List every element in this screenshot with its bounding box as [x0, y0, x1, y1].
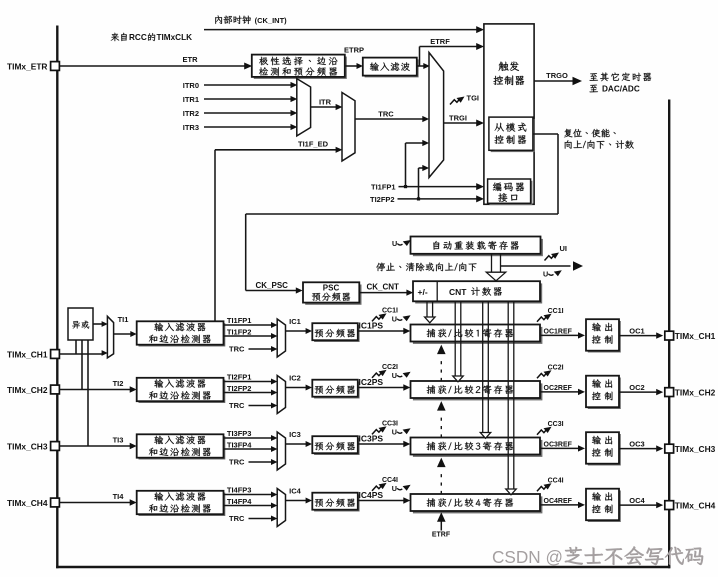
mux ITR selector [297, 79, 311, 136]
block prescaler 2 [312, 380, 359, 399]
event arrow CC2I capture [372, 364, 398, 378]
svg-text:TI2: TI2 [113, 379, 124, 388]
bus counter to capture/compare 1 [425, 302, 435, 323]
wire XOR output [93, 321, 108, 327]
svg-text:ITR1: ITR1 [183, 95, 199, 104]
event arrow CC3I right [537, 421, 564, 435]
svg-text:ETR: ETR [183, 55, 199, 64]
svg-text:TIMx_CH1: TIMx_CH1 [7, 350, 48, 360]
wire TI2FP1 [224, 372, 278, 384]
wire OC3 [619, 439, 663, 451]
block prescaler 1 [312, 323, 359, 342]
block output control 4 [586, 489, 621, 522]
wire TI4FP3 [224, 485, 278, 497]
wire TI1FP1 to trigger controller and encoder [371, 140, 484, 192]
svg-text:IC3PS: IC3PS [359, 433, 384, 443]
wire TI1 [114, 315, 137, 337]
svg-text:OC3REF: OC3REF [544, 442, 573, 449]
wire IC4 [286, 487, 313, 504]
block auto-reload register [411, 237, 543, 257]
output pad TIMx_CH4 [665, 501, 716, 511]
svg-text:TRGI: TRGI [449, 114, 467, 123]
svg-text:IC4PS: IC4PS [359, 490, 384, 500]
event arrow UI [545, 244, 568, 261]
event arrow CC1I right [537, 308, 564, 322]
wire ETRF to trigger controller [417, 37, 484, 69]
dashed wire capture trigger row 3 to row 2 [437, 401, 446, 437]
svg-text:TRGO: TRGO [546, 71, 568, 80]
wire TRC to TRGI mux [355, 110, 429, 123]
wire OC2 [619, 383, 663, 395]
svg-text:IC2: IC2 [289, 374, 301, 383]
wire OC1 [619, 326, 663, 338]
wire TI2 [60, 379, 137, 393]
block capture/compare 4 register [411, 494, 543, 513]
block output control 3 [586, 432, 621, 465]
event U at capture/compare 1 register [392, 314, 411, 323]
svg-text:TIMx_CH4: TIMx_CH4 [675, 501, 716, 511]
svg-text:U: U [392, 314, 397, 323]
svg-text:TI1FP2: TI1FP2 [227, 327, 252, 336]
wire TRC stub 4 [229, 514, 277, 523]
label reset enable up/down count [564, 129, 634, 149]
input pad TIMx_CH4 [7, 498, 59, 508]
block trigger controller [484, 24, 534, 204]
svg-text:TI4: TI4 [113, 492, 125, 501]
block input filter and edge detector 3 [137, 434, 226, 459]
outer block border bottom edge [56, 566, 670, 568]
svg-text:PSC: PSC [323, 283, 340, 292]
svg-text:TI2FP2: TI2FP2 [227, 384, 252, 393]
bus counter to capture/compare 3 [480, 302, 490, 439]
wire TI1FP1 [224, 316, 278, 328]
svg-text:TI2FP1: TI2FP1 [227, 372, 252, 381]
wire IC2PS [358, 377, 411, 391]
bus counter to capture/compare 2 [453, 302, 463, 382]
svg-text:TIMx_CH3: TIMx_CH3 [7, 441, 48, 451]
svg-text:TIMx_CH1: TIMx_CH1 [675, 331, 716, 341]
wire OC4REF [540, 498, 585, 508]
wire TRGI [444, 114, 484, 127]
event U at capture/compare 2 register [392, 371, 411, 380]
event arrow CC4I right [537, 478, 564, 492]
wire TI3 [60, 435, 137, 449]
svg-text:ITR3: ITR3 [183, 123, 199, 132]
mux IC3 selector [277, 432, 285, 470]
svg-text:TI3FP4: TI3FP4 [227, 440, 252, 449]
svg-text:OC4: OC4 [629, 496, 645, 505]
label 来自RCC的TIMxCLK [111, 33, 192, 42]
event arrow CC1I capture [372, 308, 398, 322]
svg-text:UI: UI [560, 244, 568, 253]
watermark CSDN [492, 546, 703, 567]
block encoder interface [488, 179, 533, 205]
wire CK_INT to trigger controller [204, 26, 484, 33]
label stop clear up/down [376, 263, 476, 272]
block PSC prescaler [303, 282, 362, 305]
svg-text:U: U [392, 484, 397, 493]
svg-text:ETRF: ETRF [432, 532, 451, 539]
block capture/compare 3 register [411, 438, 543, 457]
label internal clock (CK_INT) [215, 16, 287, 25]
block input filter and edge detector 2 [137, 378, 226, 403]
mux IC2 selector [277, 376, 285, 414]
wire ITR3 [183, 123, 298, 132]
wire ETR [60, 55, 252, 70]
block input filter and edge detector 1 [137, 321, 226, 346]
input pad TIMx_CH3 [7, 441, 59, 451]
svg-text:TIMx_CH2: TIMx_CH2 [7, 385, 48, 395]
block input filter [363, 58, 419, 78]
outer block border right edge [668, 100, 670, 569]
svg-text:U: U [392, 239, 397, 248]
svg-text:ETRF: ETRF [430, 37, 450, 46]
svg-text:IC1: IC1 [289, 317, 301, 326]
dashed wire capture trigger row 4 to row 3 [437, 458, 446, 494]
svg-text:U: U [543, 269, 548, 278]
wire IC4PS [358, 490, 411, 504]
block XOR [68, 308, 93, 340]
svg-text:CK_PSC: CK_PSC [256, 281, 289, 290]
outer block border left edge [56, 26, 58, 569]
block input filter and edge detector 4 [137, 491, 226, 516]
svg-text:TRC: TRC [229, 401, 245, 410]
svg-text:CSDN @: CSDN @ [492, 547, 563, 567]
wire TI1F_ED [215, 139, 342, 321]
block output control 1 [586, 319, 621, 352]
svg-text:TI4FP3: TI4FP3 [227, 485, 252, 494]
svg-text:CNT: CNT [449, 287, 467, 297]
block polarity selection edge detector and prescaler [252, 55, 347, 79]
svg-text:TIMx_CH4: TIMx_CH4 [7, 498, 48, 508]
output pad TIMx_CH2 [665, 388, 716, 398]
mux IC1 selector [277, 319, 285, 357]
svg-text:TIMx_CH2: TIMx_CH2 [675, 388, 716, 398]
svg-text:+/-: +/- [418, 287, 428, 297]
svg-text:TGI: TGI [467, 94, 480, 103]
svg-text:TI2FP2: TI2FP2 [370, 195, 395, 204]
bus counter to capture/compare 4 [506, 302, 516, 495]
mux IC4 selector [277, 489, 285, 527]
block CNT counter [413, 281, 542, 303]
input pad TIMx_ETR [7, 61, 59, 71]
input pad TIMx_CH1 [7, 350, 59, 360]
dashed wire capture trigger row 2 to row 1 [437, 345, 446, 381]
svg-text:ITR2: ITR2 [183, 109, 199, 118]
block prescaler 4 [312, 493, 359, 512]
wire OC1REF [540, 329, 585, 339]
wire ITR1 [183, 95, 298, 104]
wire TI2FP2 to trigger controller and encoder [370, 165, 484, 204]
block capture/compare 2 register [411, 381, 543, 400]
svg-text:CC1I: CC1I [548, 308, 564, 315]
wire CH3 to XOR [87, 340, 89, 446]
wire OC4 [619, 496, 663, 508]
wire OC2REF [540, 385, 585, 395]
svg-text:OC3: OC3 [629, 439, 644, 448]
event arrow CC3I capture [372, 421, 398, 435]
svg-text:CC4I: CC4I [548, 478, 564, 485]
bus auto-reload to counter [486, 254, 506, 281]
wire ETRF to capture/compare 4 [432, 512, 451, 538]
wire OC3REF [540, 442, 585, 452]
block slave mode controller [489, 117, 535, 152]
svg-text:TI1F_ED: TI1F_ED [298, 139, 329, 148]
wire TI2FP2 [224, 384, 278, 396]
svg-text:ITR: ITR [319, 97, 332, 106]
svg-text:TI1FP1: TI1FP1 [371, 183, 396, 192]
wire IC2 [286, 374, 313, 391]
svg-text:OC2REF: OC2REF [544, 385, 573, 392]
input pad TIMx_CH2 [7, 385, 59, 395]
svg-text:TI3FP3: TI3FP3 [227, 429, 252, 438]
wire CH1 to XOR [75, 340, 77, 354]
svg-text:CC2I: CC2I [548, 365, 564, 372]
svg-text:(CK_INT): (CK_INT) [253, 16, 288, 25]
event arrow TGI [450, 94, 479, 105]
svg-text:TIMxCLK: TIMxCLK [157, 33, 193, 42]
wire ETRP [344, 46, 364, 69]
event arrow CC4I capture [372, 477, 398, 491]
wire TI1FP2 [224, 327, 278, 339]
svg-text:U: U [392, 427, 397, 436]
svg-text:TI1: TI1 [118, 315, 129, 324]
wire IC1PS [358, 320, 411, 334]
wire ITR2 [183, 109, 298, 118]
svg-text:ITR0: ITR0 [183, 81, 199, 90]
svg-text:RCC: RCC [129, 33, 147, 42]
wire TI3FP3 [224, 429, 278, 441]
svg-text:IC1PS: IC1PS [359, 320, 384, 330]
svg-text:OC1REF: OC1REF [544, 329, 573, 336]
mux TRC selector [342, 93, 355, 162]
wire IC3PS [358, 433, 411, 447]
label to other timers / DAC/ADC [590, 73, 652, 94]
wire TRGO [534, 71, 582, 85]
svg-text:OC1: OC1 [629, 326, 644, 335]
wire CK_CNT [360, 282, 414, 295]
svg-text:IC4: IC4 [289, 487, 302, 496]
wire TRC stub 2 [229, 401, 277, 410]
wire update event to right edge [501, 261, 584, 278]
mux TRGI selector [429, 53, 444, 178]
event arrow CC2I right [537, 365, 564, 379]
block capture/compare 1 register [411, 325, 543, 344]
event U at capture/compare 3 register [392, 427, 411, 436]
block prescaler 3 [312, 436, 359, 455]
svg-text:TI1FP1: TI1FP1 [227, 316, 252, 325]
mux TI1 selector [107, 316, 113, 358]
svg-text:ETRP: ETRP [344, 46, 364, 55]
wire CH1 to TI1 mux [60, 350, 108, 356]
block output control 2 [586, 376, 621, 409]
svg-text:TIMx_CH3: TIMx_CH3 [675, 444, 716, 454]
wire CH2 to XOR [81, 340, 83, 390]
event U at auto-reload register [392, 239, 411, 248]
event U at capture/compare 4 register [392, 484, 411, 493]
svg-text:CC3I: CC3I [548, 421, 564, 428]
wire IC1 [286, 317, 313, 334]
svg-text:IC3: IC3 [289, 430, 301, 439]
wire TRC stub 1 [229, 345, 277, 354]
output pad TIMx_CH1 [665, 331, 716, 341]
wire TRC stub 3 [229, 458, 277, 467]
wire CK_PSC from trigger/slave controller [246, 134, 558, 294]
svg-text:TI3: TI3 [113, 435, 124, 444]
svg-text:TI4FP4: TI4FP4 [227, 497, 252, 506]
wire TI3FP4 [224, 440, 278, 452]
wire TI4 [60, 492, 137, 506]
svg-text:TRC: TRC [229, 514, 245, 523]
svg-text:IC2PS: IC2PS [359, 377, 384, 387]
svg-text:TIMx_ETR: TIMx_ETR [7, 61, 48, 71]
wire ITR0 [183, 81, 298, 90]
svg-text:TRC: TRC [378, 110, 394, 119]
wire IC3 [286, 430, 313, 447]
svg-text:TRC: TRC [229, 345, 245, 354]
svg-text:DAC/ADC: DAC/ADC [602, 85, 640, 94]
svg-text:CK_CNT: CK_CNT [367, 282, 400, 291]
output pad TIMx_CH3 [665, 444, 716, 454]
wire ITR [311, 97, 343, 110]
svg-text:U: U [392, 371, 397, 380]
svg-text:OC2: OC2 [629, 383, 644, 392]
wire TI4FP4 [224, 497, 278, 509]
svg-text:TRC: TRC [229, 458, 245, 467]
svg-text:OC4REF: OC4REF [544, 498, 573, 505]
